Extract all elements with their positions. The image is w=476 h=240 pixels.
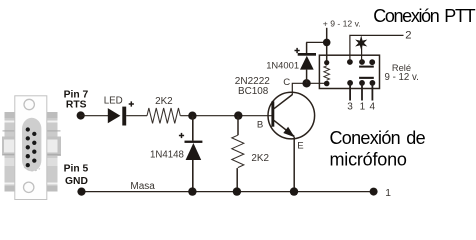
wire D2 to rail	[192, 160, 194, 192]
node base/diode junction	[188, 112, 196, 120]
connector J1 DB9	[2, 96, 61, 200]
svg-text:2K2: 2K2	[155, 96, 173, 107]
svg-text:GND: GND	[65, 176, 88, 187]
label Conexion de microfono	[330, 128, 426, 169]
wire RTS to LED	[80, 115, 108, 117]
svg-text:BC108: BC108	[238, 86, 269, 97]
screw hole bottom	[24, 182, 34, 192]
svg-text:LED: LED	[104, 96, 123, 107]
svg-text:micrófono: micrófono	[330, 150, 407, 170]
svg-text:1N4148: 1N4148	[150, 150, 184, 161]
left shell column	[5, 112, 15, 192]
svg-text:1: 1	[385, 188, 391, 199]
wire R2 to rail	[236, 168, 238, 192]
wire junction to R2	[237, 116, 239, 135]
svg-text:Conexión PTT: Conexión PTT	[373, 6, 475, 26]
D-sub body	[22, 118, 41, 172]
node rail junction emitter	[290, 187, 298, 195]
contact bar top	[359, 66, 374, 68]
node Pin 7 RTS	[64, 89, 89, 119]
svg-text:2: 2	[405, 29, 411, 41]
svg-text:RTS: RTS	[66, 100, 87, 111]
power +9-12V	[323, 18, 361, 62]
svg-text:1N4001: 1N4001	[266, 60, 299, 71]
svg-text:Pin 5: Pin 5	[64, 164, 89, 175]
wire LED to R1	[126, 115, 147, 117]
wire diode top to power node	[306, 41, 327, 43]
svg-text:9 - 12 v.: 9 - 12 v.	[385, 72, 419, 83]
svg-text:C: C	[283, 77, 290, 88]
wire star stem	[361, 46, 363, 62]
wire R1 to base	[180, 115, 273, 117]
coil	[324, 66, 330, 80]
ground rail Masa	[82, 181, 374, 192]
right shell column	[47, 112, 58, 192]
node collector/diode/coil	[302, 79, 310, 87]
LED D1	[104, 96, 134, 126]
coil terminals	[324, 60, 329, 65]
wire emitter to rail	[293, 137, 295, 192]
svg-text:Masa: Masa	[130, 181, 155, 192]
node Pin 5 GND	[64, 164, 89, 196]
flange plate	[15, 96, 47, 200]
svg-text:Conexión de: Conexión de	[330, 128, 426, 148]
relay pin 1	[360, 83, 366, 113]
screw hole top	[24, 99, 34, 109]
diode D2 1N4148	[150, 133, 202, 161]
wire collector up	[292, 83, 326, 95]
relay box	[319, 55, 379, 88]
wire contact to terminal 2	[350, 35, 404, 62]
diode D3 1N4001	[266, 42, 316, 83]
contact bar bottom	[359, 77, 374, 79]
svg-text:2K2: 2K2	[251, 153, 269, 164]
svg-text:+ 9 - 12 v.: + 9 - 12 v.	[323, 18, 361, 28]
contact dots bottom	[347, 80, 353, 86]
wire junction to D2	[192, 116, 194, 141]
relay K1	[319, 55, 418, 88]
side tabs	[2, 137, 19, 156]
svg-text:3: 3	[347, 102, 353, 113]
relay pin 3	[347, 83, 353, 113]
clip wires	[3, 130, 20, 131]
node rail junction R2	[233, 187, 241, 195]
resistor R2 2K2	[232, 135, 269, 167]
relay pin 4	[370, 83, 376, 113]
svg-text:B: B	[257, 120, 263, 131]
svg-text:4: 4	[370, 102, 376, 113]
svg-text:E: E	[297, 141, 303, 152]
resistor R1 2K2	[147, 96, 180, 123]
transistor Q1 2N2222 BC108	[235, 76, 315, 152]
node rail junction D2	[188, 187, 196, 195]
node terminal 1 end	[370, 188, 392, 199]
contact dots top	[347, 59, 353, 65]
svg-text:1: 1	[360, 102, 366, 113]
node R2 top junction	[234, 111, 242, 119]
pins	[26, 127, 37, 167]
star mark	[355, 35, 367, 50]
